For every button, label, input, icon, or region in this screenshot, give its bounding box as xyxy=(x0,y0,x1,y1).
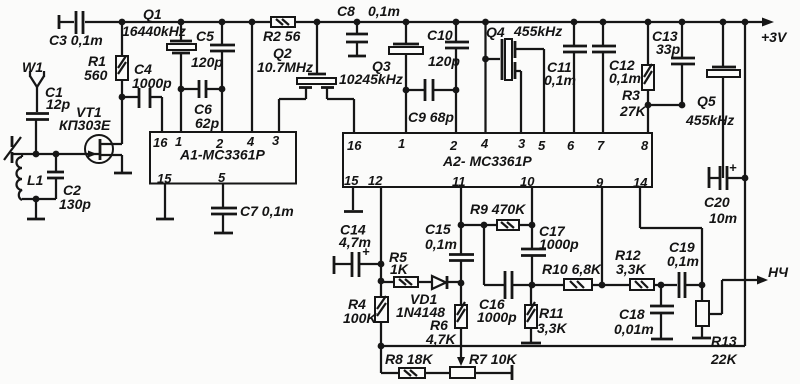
node junction C2/gate xyxy=(53,151,60,158)
resistor R3 xyxy=(619,22,682,133)
svg-text:L1: L1 xyxy=(27,172,44,188)
node junction rail/Q2 xyxy=(314,19,321,26)
svg-text:1000p: 1000p xyxy=(539,236,579,252)
wire A2 pin14 route xyxy=(640,187,702,285)
node junction R3/pin8 xyxy=(645,102,652,109)
wire A1 pin15 to ground xyxy=(156,184,174,220)
capacitor C11 xyxy=(544,22,587,133)
wire top +3V rail xyxy=(60,21,763,23)
inductor L1 xyxy=(17,154,44,200)
IC A2 MC3361P xyxy=(343,133,652,190)
svg-text:R7 10K: R7 10K xyxy=(469,351,517,367)
resistor R2 xyxy=(263,17,301,44)
diode VD1 xyxy=(396,276,461,320)
transistor VT1 xyxy=(59,97,122,172)
wire A2 pin11 line xyxy=(460,187,462,254)
svg-text:3,3K: 3,3K xyxy=(537,320,567,336)
svg-text:4: 4 xyxy=(480,136,489,151)
svg-text:455kHz: 455kHz xyxy=(513,23,562,39)
svg-text:C3 0,1m: C3 0,1m xyxy=(49,32,103,48)
node junction C19/R13/pin14 xyxy=(699,282,706,289)
svg-text:C5: C5 xyxy=(196,28,214,44)
resistor R6 xyxy=(425,283,467,366)
wire A2 pin15 to ground xyxy=(344,187,363,212)
capacitor C8 xyxy=(337,3,400,56)
svg-text:3: 3 xyxy=(272,133,280,148)
node junction Q4 tap xyxy=(482,56,489,63)
node junction rail/R3 xyxy=(645,19,652,26)
node junction Q1/C6 xyxy=(178,86,185,93)
filter Q2 xyxy=(257,22,354,133)
capacitor C17 xyxy=(521,223,579,285)
svg-text:22K: 22K xyxy=(710,351,738,367)
resistor R11 xyxy=(521,285,567,343)
svg-text:Q1: Q1 xyxy=(143,6,162,22)
svg-text:R3: R3 xyxy=(622,87,640,103)
svg-text:12p: 12p xyxy=(46,96,71,112)
svg-text:6: 6 xyxy=(567,138,575,153)
svg-text:C20: C20 xyxy=(704,194,730,210)
svg-text:10m: 10m xyxy=(709,210,737,226)
node NCh output arrow xyxy=(722,264,789,285)
potentiometer R7 xyxy=(450,351,517,380)
svg-text:R11: R11 xyxy=(539,305,564,321)
svg-text:1K: 1K xyxy=(390,261,409,277)
capacitor C12 xyxy=(592,22,641,133)
node junction rail/Q5 xyxy=(720,19,727,26)
node junction Q3/C9 xyxy=(403,87,410,94)
svg-text:10245kHz: 10245kHz xyxy=(339,71,403,87)
node junction rail/Q4 xyxy=(482,19,489,26)
svg-text:0,1m: 0,1m xyxy=(368,3,400,19)
svg-text:2: 2 xyxy=(449,138,458,153)
wire bottom long xyxy=(381,345,745,347)
svg-text:0,1m: 0,1m xyxy=(544,72,576,88)
svg-text:W1: W1 xyxy=(22,59,43,75)
svg-text:0,1m: 0,1m xyxy=(667,253,699,269)
wire R9 left branch xyxy=(461,225,504,285)
capacitor C4 xyxy=(122,61,172,132)
wire A2 pin12 line xyxy=(380,187,382,297)
svg-text:130p: 130p xyxy=(59,196,91,212)
capacitor C9 xyxy=(406,79,456,125)
node junction C1/gate xyxy=(33,151,40,158)
node junction pin11/R9 xyxy=(458,222,465,229)
svg-text:560: 560 xyxy=(84,67,108,83)
resistor R9 xyxy=(470,201,532,230)
svg-text:12: 12 xyxy=(368,173,383,188)
node junction R1/C4/VT1 xyxy=(119,94,126,101)
node junction pin10/R9 xyxy=(529,222,536,229)
svg-text:C8: C8 xyxy=(337,3,355,19)
svg-text:7: 7 xyxy=(597,138,605,153)
svg-text:0,1m: 0,1m xyxy=(425,236,457,252)
node junction VD1/C15/R6 xyxy=(458,280,465,287)
capacitor C18 xyxy=(614,285,674,339)
svg-text:5: 5 xyxy=(218,170,226,185)
capacitor C13 xyxy=(652,22,695,105)
node junction rail/C11 xyxy=(571,19,578,26)
ground VT1 source xyxy=(114,172,132,175)
antenna W1 xyxy=(22,59,44,112)
node junction rail/C13 xyxy=(679,19,686,26)
node junction C20/right drop xyxy=(742,175,749,182)
svg-text:+: + xyxy=(729,160,737,175)
svg-text:Q5: Q5 xyxy=(697,93,716,109)
wire gate line xyxy=(12,153,85,155)
resistor R8 xyxy=(385,351,450,378)
node junction rail/Q3 xyxy=(403,19,410,26)
svg-text:R13: R13 xyxy=(711,333,737,349)
svg-text:C7 0,1m: C7 0,1m xyxy=(240,203,294,219)
capacitor C16 xyxy=(477,271,532,325)
node junction rail/right drop xyxy=(742,19,749,26)
svg-text:0,1m: 0,1m xyxy=(609,70,641,86)
node junction R9/C16 branch xyxy=(481,222,488,229)
crystal Q1 xyxy=(122,6,196,132)
trimmer terminal xyxy=(4,136,21,163)
svg-text:3,3K: 3,3K xyxy=(616,261,646,277)
svg-text:+3V: +3V xyxy=(761,29,788,45)
capacitor C6 xyxy=(181,80,222,131)
node junction rail/C10 xyxy=(453,19,460,26)
crystal Q5 xyxy=(685,22,740,178)
capacitor C5 xyxy=(191,22,235,132)
node junction rail/R1 xyxy=(119,19,126,26)
capacitor C19 xyxy=(667,239,702,298)
svg-text:16: 16 xyxy=(153,135,168,150)
resistor R4 xyxy=(343,296,388,346)
node junction rail/C8 xyxy=(354,19,361,26)
wire right vertical drop xyxy=(744,22,746,346)
svg-text:R2 56: R2 56 xyxy=(263,28,301,44)
svg-text:A2- MC3361P: A2- MC3361P xyxy=(442,153,532,169)
svg-text:КП303Е: КП303Е xyxy=(59,117,111,133)
resistor R10 xyxy=(532,261,602,290)
node junction L1/C2 xyxy=(33,196,40,203)
node junction C14/pin12 xyxy=(378,261,385,268)
svg-text:R9 470K: R9 470K xyxy=(470,201,526,217)
svg-text:16: 16 xyxy=(347,138,362,153)
wire A1 pin4 to rail xyxy=(251,22,253,132)
node junction C5/C6 xyxy=(219,86,226,93)
svg-text:455kHz: 455kHz xyxy=(685,112,734,128)
potentiometer R13 xyxy=(692,280,738,367)
svg-text:10.7MHz: 10.7MHz xyxy=(257,59,313,75)
resistor R12 xyxy=(602,247,677,290)
capacitor C7 xyxy=(211,184,294,234)
node +3V arrowhead xyxy=(762,18,774,27)
capacitor C3 input terminal xyxy=(58,15,61,29)
ground L1/C2 xyxy=(27,199,45,219)
node junction R5/pin12 xyxy=(378,278,385,285)
node junction R4/bottom xyxy=(378,343,385,350)
svg-text:C9 68p: C9 68p xyxy=(408,109,454,125)
node junction C16/C17/R10/R11 xyxy=(529,282,536,289)
svg-text:11: 11 xyxy=(452,174,466,189)
svg-text:8: 8 xyxy=(641,138,649,153)
svg-text:C15: C15 xyxy=(425,221,451,237)
svg-text:A1-MC3361P: A1-MC3361P xyxy=(179,147,265,163)
node +3V label xyxy=(761,29,788,45)
wire A2 pin10 line xyxy=(531,187,533,249)
svg-text:33p: 33p xyxy=(656,41,681,57)
resistor R1 xyxy=(84,22,128,97)
filter Q4 xyxy=(486,22,563,133)
svg-text:120p: 120p xyxy=(191,54,223,70)
svg-text:Q4: Q4 xyxy=(486,24,505,40)
capacitor C15 xyxy=(425,221,474,283)
crystal Q3 xyxy=(339,22,423,133)
node junction C13/R3 xyxy=(679,102,686,109)
capacitor C10 xyxy=(427,22,469,133)
IC A1 MC3361P xyxy=(150,132,296,186)
node junction rail/C12 xyxy=(600,19,607,26)
svg-text:62p: 62p xyxy=(195,115,220,131)
node junction rail/Q1 xyxy=(178,19,185,26)
svg-text:1000p: 1000p xyxy=(132,75,172,91)
svg-text:120p: 120p xyxy=(428,53,460,69)
svg-text:16440kHz: 16440kHz xyxy=(122,23,186,39)
node junction rail/pin4 xyxy=(249,19,256,26)
capacitor C2 xyxy=(36,154,91,212)
capacitor C14 xyxy=(334,222,381,278)
svg-text:100K: 100K xyxy=(343,310,377,326)
node junction pin9/R10/R12 xyxy=(599,282,606,289)
svg-text:27K: 27K xyxy=(619,103,647,119)
svg-text:1: 1 xyxy=(398,136,405,151)
capacitor C1 xyxy=(26,84,71,154)
svg-text:1000p: 1000p xyxy=(477,309,517,325)
node junction C10/C9 xyxy=(453,87,460,94)
svg-text:C10: C10 xyxy=(427,27,453,43)
svg-text:4,7K: 4,7K xyxy=(425,331,456,347)
svg-text:10: 10 xyxy=(520,174,535,189)
wire A2 pin9 line xyxy=(601,187,603,285)
svg-text:НЧ: НЧ xyxy=(768,264,789,280)
capacitor C3 xyxy=(49,11,103,48)
svg-text:C18: C18 xyxy=(619,306,645,322)
svg-text:5: 5 xyxy=(538,138,546,153)
svg-text:3: 3 xyxy=(518,136,526,151)
svg-text:R10 6,8K: R10 6,8K xyxy=(542,261,602,277)
node junction R12/C18/C19 xyxy=(658,282,665,289)
svg-text:15: 15 xyxy=(344,173,359,188)
resistor R5 xyxy=(381,249,418,287)
svg-text:0,01m: 0,01m xyxy=(614,321,654,337)
node junction rail/C5 xyxy=(219,19,226,26)
wire R8 row xyxy=(381,346,399,373)
svg-text:4,7m: 4,7m xyxy=(338,234,371,250)
capacitor C20 xyxy=(704,160,745,226)
svg-text:R8 18K: R8 18K xyxy=(385,351,433,367)
